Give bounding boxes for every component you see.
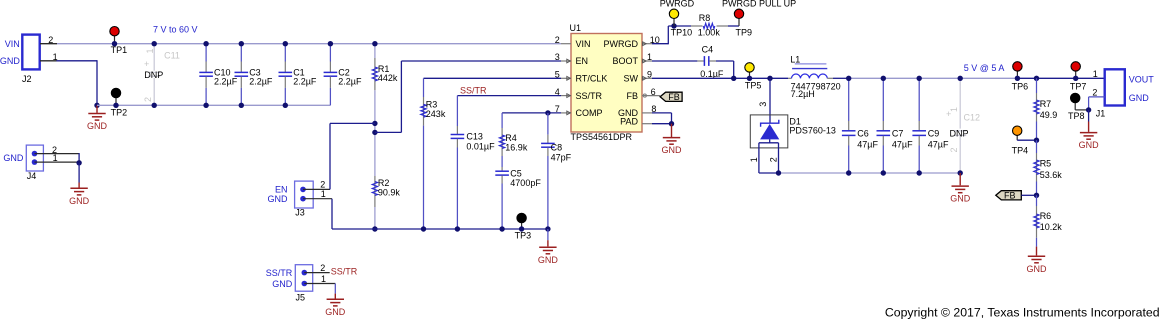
svg-text:PWRGD: PWRGD <box>660 0 695 8</box>
capacitor C12 (DNP ghost) <box>946 78 980 173</box>
svg-text:TP10: TP10 <box>671 28 693 38</box>
wire output rail <box>849 77 1018 79</box>
svg-text:GND: GND <box>1129 93 1150 103</box>
test point TP8 <box>1068 93 1085 121</box>
svg-text:J3: J3 <box>295 207 305 217</box>
wire J4 pin 1 <box>35 161 80 163</box>
svg-text:GND: GND <box>272 279 293 289</box>
inductor L1 7447798720 7.2uH <box>788 54 841 99</box>
resistor R5 53.6k <box>1034 140 1062 195</box>
svg-text:47µF: 47µF <box>928 139 949 149</box>
wire J3 pin 2 to EN node <box>303 188 330 190</box>
wire R1/R2 EN node <box>374 90 376 176</box>
junction D1 tap on SW rail <box>767 76 772 81</box>
svg-text:R6: R6 <box>1040 211 1052 221</box>
svg-text:TP7: TP7 <box>1070 82 1087 92</box>
wire J3 pin 1 to bottom rail <box>303 198 332 200</box>
capacitor C10 2.2uF <box>199 44 237 106</box>
svg-text:C12: C12 <box>964 113 981 123</box>
resistor R2 90.9k <box>372 176 400 207</box>
resistor R4 16.9k <box>499 113 527 156</box>
junction EN node lower <box>372 130 377 135</box>
junction J1 GND node <box>1086 107 1091 112</box>
wire VIN rail <box>57 43 561 45</box>
svg-text:+: + <box>946 109 951 119</box>
ground GND (R6) <box>1027 238 1048 274</box>
capacitor C9 47uF <box>912 78 949 173</box>
svg-text:5 V @ 5 A: 5 V @ 5 A <box>964 63 1005 73</box>
ground GND (input, below J2) <box>87 105 108 131</box>
capacitor C3 2.2uF <box>235 44 273 106</box>
svg-text:16.9k: 16.9k <box>505 142 528 152</box>
ground GND (U1 pad) <box>662 124 683 156</box>
svg-text:GND: GND <box>3 153 24 163</box>
wire input GND rail <box>97 104 330 106</box>
test point TP2 <box>111 88 128 117</box>
svg-text:47pF: 47pF <box>551 152 572 162</box>
resistor R6 10.2k <box>1034 195 1062 238</box>
svg-text:TPS54561DPR: TPS54561DPR <box>571 132 633 142</box>
wire FB tag to divider <box>1021 194 1036 196</box>
svg-text:+: + <box>144 59 149 69</box>
junction C2 top <box>328 41 333 46</box>
junction R3 on bottom rail <box>421 226 426 231</box>
svg-text:DNP: DNP <box>950 129 969 139</box>
wire J1 pin 2 <box>1089 96 1105 98</box>
svg-text:9: 9 <box>647 70 652 80</box>
svg-text:GND: GND <box>1027 264 1048 274</box>
wire PAD <box>652 123 672 125</box>
junction TP4 node <box>1034 138 1039 143</box>
junction J4 GND node <box>76 160 81 165</box>
pin 4 SS/TR stub <box>555 87 571 98</box>
junction TP2/GND node <box>94 103 99 108</box>
svg-text:1: 1 <box>749 157 759 162</box>
svg-text:7.2µH: 7.2µH <box>791 89 815 99</box>
connector J5 <box>266 263 326 303</box>
connector J2 <box>0 35 58 84</box>
svg-text:R7: R7 <box>1040 99 1052 109</box>
svg-text:TP6: TP6 <box>1012 82 1029 92</box>
svg-text:2: 2 <box>143 97 153 102</box>
svg-text:J1: J1 <box>1096 108 1106 118</box>
junction TP1 on VIN rail <box>112 41 117 46</box>
junction C13 on bottom rail <box>455 226 460 231</box>
wire J5 pin 2 / SS/TR net label <box>304 272 329 274</box>
svg-text:PDS760-13: PDS760-13 <box>789 126 836 136</box>
svg-text:2: 2 <box>320 263 325 273</box>
junction C12 bottom / GND rail end <box>958 170 963 175</box>
ground GND (J5) <box>325 284 346 317</box>
junction R4/C5 on bottom rail <box>499 226 504 231</box>
wire RT/CLK to U1 <box>424 77 562 79</box>
junction C6 top <box>846 76 851 81</box>
svg-text:GND: GND <box>87 121 108 131</box>
svg-text:2.2µF: 2.2µF <box>249 77 273 87</box>
svg-text:C8: C8 <box>551 142 563 152</box>
svg-text:2.2µF: 2.2µF <box>293 77 317 87</box>
svg-text:0.01µF: 0.01µF <box>466 141 495 151</box>
junction TP10 <box>671 23 676 28</box>
pin 8 GND stub <box>642 104 656 114</box>
junction C4/SW <box>731 76 736 81</box>
svg-text:2.2µF: 2.2µF <box>338 77 362 87</box>
junction R7 tap on output rail <box>1034 76 1039 81</box>
test point TP9 <box>734 9 752 38</box>
svg-text:GND: GND <box>0 56 20 66</box>
junction TP5 on SW rail <box>747 76 752 81</box>
svg-text:49.9: 49.9 <box>1040 110 1058 120</box>
svg-text:R4: R4 <box>505 133 517 143</box>
junction C3 bottom <box>239 103 244 108</box>
svg-text:VIN: VIN <box>576 39 591 49</box>
svg-text:1: 1 <box>145 48 155 53</box>
junction C10 top <box>203 41 208 46</box>
svg-text:7 V to 60 V: 7 V to 60 V <box>153 24 198 34</box>
capacitor C5 4700pF <box>495 156 541 229</box>
wire TP4 to divider <box>1017 139 1036 141</box>
svg-text:SS/TR: SS/TR <box>460 85 487 95</box>
svg-text:4: 4 <box>555 87 560 97</box>
svg-text:C4: C4 <box>702 44 714 54</box>
capacitor C1 2.2uF <box>279 44 317 106</box>
net label FB (divider) <box>996 191 1022 201</box>
svg-text:VOUT: VOUT <box>1129 75 1155 85</box>
svg-text:C7: C7 <box>892 128 904 138</box>
junction C3 top <box>239 41 244 46</box>
junction C9 bottom <box>917 170 922 175</box>
svg-text:VIN: VIN <box>5 39 20 49</box>
capacitor C2 2.2uF <box>324 44 362 106</box>
junction C8 tap on COMP wire <box>545 110 550 115</box>
svg-text:J5: J5 <box>296 293 306 303</box>
svg-text:6: 6 <box>651 87 656 97</box>
svg-text:GND: GND <box>538 255 559 265</box>
svg-text:GND: GND <box>268 194 289 204</box>
pin 2 VIN stub <box>555 35 571 45</box>
svg-text:PWRGD: PWRGD <box>604 39 639 49</box>
connector J1 <box>1092 69 1154 118</box>
svg-text:RT/CLK: RT/CLK <box>576 74 608 84</box>
wire J2 pin 1 to GND <box>40 60 57 62</box>
junction C1 bottom <box>283 103 288 108</box>
svg-text:TP3: TP3 <box>515 231 532 241</box>
svg-text:442k: 442k <box>378 73 398 83</box>
junction R1 top on VIN rail <box>372 41 377 46</box>
ground GND (J1) <box>1079 110 1100 150</box>
svg-text:1: 1 <box>321 274 326 284</box>
capacitor C8 47pF <box>541 113 572 229</box>
ground GND (bottom rail) <box>538 229 559 265</box>
svg-text:C13: C13 <box>466 132 483 142</box>
wire L1 to output rail <box>833 77 849 79</box>
wire C4 to SW <box>716 60 734 62</box>
junction TP7 on output rail <box>1073 76 1078 81</box>
svg-text:2.2µF: 2.2µF <box>214 77 238 87</box>
capacitor C11 (DNP ghost) <box>143 44 180 106</box>
junction C9 top <box>917 76 922 81</box>
svg-text:90.9k: 90.9k <box>378 188 401 198</box>
test point TP5 <box>745 63 762 91</box>
svg-text:47µF: 47µF <box>857 139 878 149</box>
svg-text:PAD: PAD <box>620 117 638 127</box>
test point TP6 <box>1012 62 1029 92</box>
svg-text:10.2k: 10.2k <box>1040 222 1063 232</box>
ground GND (J4) <box>69 163 90 206</box>
ground GND (output) <box>950 173 971 204</box>
wire J2 pin 2 stub <box>40 43 57 45</box>
resistor R1 442k <box>372 44 398 91</box>
svg-text:TP2: TP2 <box>111 107 128 117</box>
svg-text:1: 1 <box>647 52 652 62</box>
svg-text:TP4: TP4 <box>1012 145 1029 155</box>
svg-text:TP1: TP1 <box>111 45 128 55</box>
pin 3 EN stub <box>555 52 571 63</box>
svg-text:5: 5 <box>555 70 560 80</box>
svg-text:7: 7 <box>555 104 560 114</box>
svg-text:PWRGD PULL UP: PWRGD PULL UP <box>722 0 796 8</box>
junction FB node <box>1034 193 1039 198</box>
diode D1 PDS760-13 <box>749 78 836 173</box>
op-amp/regulator U1 TPS54561DPR <box>570 23 643 142</box>
PAD stub <box>642 123 652 125</box>
svg-text:TP8: TP8 <box>1068 111 1085 121</box>
wire bottom GND rail <box>332 228 548 230</box>
pin 9 SW stub <box>642 70 652 81</box>
resistor R3 243k <box>421 78 446 229</box>
svg-text:C5: C5 <box>510 168 522 178</box>
junction EN node upper <box>372 121 377 126</box>
svg-text:243k: 243k <box>426 109 446 119</box>
svg-text:SS/TR: SS/TR <box>331 267 358 277</box>
wire PWRGD pin to TP10 <box>652 43 668 45</box>
junction R2 on bottom rail <box>372 226 377 231</box>
svg-text:C11: C11 <box>164 50 180 60</box>
svg-text:SW: SW <box>624 74 639 84</box>
pin 6 FB stub <box>642 87 660 97</box>
svg-text:EN: EN <box>576 56 589 66</box>
junction bottom rail end <box>545 226 550 231</box>
capacitor C13 0.01uF <box>451 96 496 229</box>
wire SS/TR to U1 <box>457 95 561 97</box>
svg-text:COMP: COMP <box>576 108 603 118</box>
svg-text:GND: GND <box>325 307 346 317</box>
test point TP4 <box>1012 126 1029 155</box>
svg-text:R8: R8 <box>699 13 711 23</box>
junction C7 bottom <box>881 170 886 175</box>
connector J4 <box>3 145 57 181</box>
junction TP3 on bottom rail <box>519 226 524 231</box>
svg-text:J4: J4 <box>27 171 37 181</box>
svg-text:2: 2 <box>769 157 779 162</box>
junction D1 pin2 on GND rail <box>776 170 781 175</box>
resistor R7 49.9 <box>1034 78 1057 140</box>
svg-text:BOOT: BOOT <box>612 56 638 66</box>
wire J5 pin 1 to GND <box>304 283 335 285</box>
svg-text:GND: GND <box>1079 140 1100 150</box>
wire TP8 to GND node <box>1075 109 1088 111</box>
wire BOOT to C4 <box>652 60 697 62</box>
test point TP3 <box>515 213 532 240</box>
svg-text:L1: L1 <box>790 54 800 64</box>
junction C11 bottom <box>152 103 157 108</box>
svg-text:SS/TR: SS/TR <box>576 91 603 101</box>
junction C10 bottom <box>203 103 208 108</box>
junction C11 top <box>152 41 157 46</box>
svg-text:DNP: DNP <box>144 70 163 80</box>
wire R8 to TP9 <box>728 25 739 27</box>
svg-text:53.6k: 53.6k <box>1040 170 1063 180</box>
test point TP1 <box>110 27 127 55</box>
net label FB (at U1) <box>660 92 682 102</box>
junction C6 bottom <box>846 170 851 175</box>
junction C12 top <box>958 76 963 81</box>
junction TP2 on GND rail <box>113 103 118 108</box>
svg-text:J2: J2 <box>22 74 32 84</box>
svg-text:C9: C9 <box>928 128 940 138</box>
svg-text:GND: GND <box>69 196 90 206</box>
wire COMP to U1 <box>502 112 561 114</box>
svg-text:C6: C6 <box>857 128 869 138</box>
capacitor C4 0.1uF <box>697 44 723 79</box>
connector J3 <box>268 180 326 218</box>
wire SW rail <box>652 77 788 79</box>
junction C7 top <box>881 76 886 81</box>
svg-text:Copyright © 2017, Texas Instru: Copyright © 2017, Texas Instruments Inco… <box>885 305 1160 319</box>
svg-text:U1: U1 <box>570 23 582 33</box>
svg-text:TP5: TP5 <box>745 80 762 90</box>
test point TP10 <box>669 9 692 38</box>
svg-text:4700pF: 4700pF <box>510 178 541 188</box>
svg-text:TP9: TP9 <box>736 28 753 38</box>
pin 5 RT/CLK stub <box>555 70 571 81</box>
junction U1 GND node <box>669 121 674 126</box>
svg-text:FB: FB <box>1004 191 1016 201</box>
svg-text:1: 1 <box>321 189 326 199</box>
svg-text:SS/TR: SS/TR <box>266 268 293 278</box>
resistor R8 1.00k <box>691 13 728 38</box>
junction C1 top <box>283 41 288 46</box>
svg-text:3: 3 <box>555 52 560 62</box>
svg-text:2: 2 <box>555 35 560 45</box>
svg-text:GND: GND <box>662 145 683 155</box>
wire J4 pin 2 <box>35 153 80 155</box>
capacitor C6 47uF <box>842 78 879 173</box>
wire EN node to U1 EN pin <box>375 131 402 133</box>
junction TP6 on output rail <box>1015 76 1020 81</box>
pin 10 PWRGD stub <box>642 35 660 46</box>
svg-text:3: 3 <box>758 102 768 107</box>
wire R2 bottom <box>374 207 376 229</box>
pin 1 BOOT stub <box>642 52 652 63</box>
svg-text:R5: R5 <box>1040 158 1052 168</box>
svg-text:GND: GND <box>950 194 971 204</box>
test point TP7 <box>1070 62 1087 92</box>
svg-text:FB: FB <box>626 91 638 101</box>
svg-text:1: 1 <box>1093 69 1098 79</box>
capacitor C7 47uF <box>877 78 914 173</box>
svg-text:47µF: 47µF <box>892 139 913 149</box>
svg-text:2: 2 <box>949 147 959 152</box>
wire output GND rail <box>759 172 779 174</box>
svg-text:FB: FB <box>668 92 680 102</box>
pin 7 COMP stub <box>555 104 571 115</box>
svg-text:1.00k: 1.00k <box>698 28 721 38</box>
svg-text:2: 2 <box>1092 87 1097 97</box>
wire GND pin 8 <box>652 112 672 114</box>
